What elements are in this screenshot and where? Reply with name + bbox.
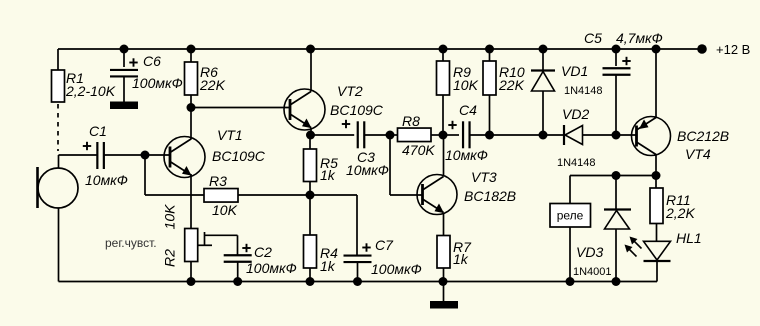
node junction R10 top (485, 45, 494, 54)
node junction R2 bottom (187, 277, 196, 286)
node junction C7 bottom (353, 277, 362, 286)
wire VT3 emitter (443, 213, 445, 236)
svg-text:1k: 1k (453, 251, 469, 267)
ground main (430, 282, 458, 309)
wire VT4 emitter (655, 49, 657, 118)
node junction C4 R10 (485, 131, 494, 140)
capacitor C6 (110, 49, 183, 102)
capacitor C5 (584, 30, 663, 135)
resistor R3 (204, 173, 310, 218)
node junction R11 top (652, 171, 661, 180)
relay K1 (550, 176, 591, 282)
svg-text:C5: C5 (584, 30, 602, 46)
node junction R6 top (187, 45, 196, 54)
resistor R6 (185, 49, 226, 108)
svg-text:22K: 22K (498, 77, 525, 93)
resistor R11 (650, 176, 695, 242)
potentiometer R2 (162, 204, 238, 282)
svg-text:C4: C4 (459, 102, 477, 118)
wire relay line (570, 175, 656, 177)
wire base to R3 (145, 155, 204, 195)
node junction VD1 top (539, 45, 548, 54)
ground C6 (110, 102, 138, 110)
svg-text:10мкФ: 10мкФ (346, 162, 389, 178)
svg-text:4,7мкФ: 4,7мкФ (616, 30, 663, 46)
capacitor C1 (59, 123, 146, 188)
node junction R3 R5 R4 (306, 191, 315, 200)
resistor R9 (437, 49, 479, 135)
svg-text:рег.чувст.: рег.чувст. (105, 236, 157, 250)
diode VD1 (531, 49, 603, 135)
diode VD3 (573, 176, 631, 282)
svg-text:BC109C: BC109C (212, 148, 266, 164)
wire VT2 emitter (310, 128, 312, 136)
capacitor C4 (443, 102, 490, 163)
wire VT1 collector (190, 108, 192, 140)
node junction R9 top (439, 45, 448, 54)
svg-text:10K: 10K (453, 77, 479, 93)
node junction VD3 bottom (612, 277, 621, 286)
svg-text:10K: 10K (212, 202, 238, 218)
node junction R4 bottom (306, 277, 315, 286)
svg-text:1k: 1k (320, 258, 336, 274)
svg-text:+12 В: +12 В (716, 42, 750, 57)
wire VT4 base (616, 134, 637, 136)
svg-text:10мкФ: 10мкФ (445, 147, 488, 163)
node junction C2 bottom (233, 277, 242, 286)
svg-text:VT1: VT1 (217, 127, 243, 143)
svg-text:BC109C: BC109C (330, 102, 384, 118)
svg-text:C7: C7 (375, 237, 394, 253)
svg-text:VT3: VT3 (471, 169, 497, 185)
wire VT1 emitter (190, 174, 192, 229)
node junction VT2 emitter (306, 131, 315, 140)
svg-text:VD2: VD2 (562, 106, 589, 122)
node junction VT2 collector top (306, 45, 315, 54)
LED arrows (625, 237, 642, 257)
wire C4 to VD1 bottom (490, 134, 544, 136)
svg-text:BC182B: BC182B (464, 188, 516, 204)
svg-text:VD3: VD3 (576, 244, 603, 260)
svg-text:1N4001: 1N4001 (573, 266, 612, 278)
capacitor C2 (224, 244, 297, 282)
node junction VD1 bottom (539, 131, 548, 140)
diode VD2 (543, 106, 616, 169)
svg-text:1N4148: 1N4148 (557, 157, 596, 169)
wire R1 dashed link (57, 104, 59, 151)
microphone BM1 (38, 155, 79, 208)
wire VT1 collector to VT2 base (191, 107, 289, 109)
node junction VT1 collector (187, 103, 196, 112)
resistor R10 (483, 49, 525, 135)
node junction ground (439, 277, 448, 286)
transistor VT3 (417, 169, 516, 215)
svg-text:100мкФ: 100мкФ (371, 261, 422, 277)
capacitor C7 (310, 195, 422, 282)
node junction VD3 top (612, 171, 621, 180)
svg-text:BC212B: BC212B (677, 128, 729, 144)
svg-text:VT2: VT2 (337, 83, 363, 99)
wire middle signal bus VT2 emitter to C3 (311, 134, 355, 136)
resistor R1 (52, 49, 116, 102)
node junction VT4 base C5 (612, 131, 621, 140)
svg-text:HL1: HL1 (676, 230, 702, 246)
svg-text:470K: 470K (402, 142, 435, 158)
node junction R9 C4 VT3 (439, 131, 448, 140)
wire +12V top rail (58, 48, 702, 50)
node junction relay bottom (566, 277, 575, 286)
svg-text:1N4148: 1N4148 (564, 85, 603, 97)
wire bottom ground bus (59, 208, 658, 282)
wire VT2 collector (310, 49, 312, 92)
svg-text:1k: 1k (320, 167, 336, 183)
svg-text:C2: C2 (254, 244, 272, 260)
resistor R7 (437, 236, 472, 282)
wire VT3 collector (443, 135, 445, 177)
svg-text:R2: R2 (162, 249, 178, 267)
terminal +12V (697, 42, 750, 57)
svg-text:R3: R3 (209, 173, 227, 189)
svg-text:100мкФ: 100мкФ (246, 260, 297, 276)
svg-text:C1: C1 (89, 123, 107, 139)
svg-text:R8: R8 (402, 113, 420, 129)
svg-text:10мкФ: 10мкФ (85, 172, 128, 188)
svg-text:реле: реле (557, 209, 584, 223)
LED HL1 (644, 230, 702, 282)
resistor R8 (390, 113, 443, 158)
transistor VT4 (632, 117, 730, 163)
svg-text:10K: 10K (162, 204, 178, 230)
node junction C3 R8 VT3 base (386, 131, 395, 140)
node junction VT1 base (141, 151, 150, 160)
svg-text:100мкФ: 100мкФ (132, 75, 183, 91)
svg-text:2,2-10K: 2,2-10K (65, 83, 116, 99)
svg-text:VT4: VT4 (685, 146, 711, 162)
capacitor C3 (342, 120, 390, 178)
transistor VT1 (164, 127, 266, 178)
transistor VT2 (284, 83, 384, 130)
resistor R4 (304, 195, 339, 282)
svg-text:VD1: VD1 (561, 63, 588, 79)
label reg.chuvst (105, 236, 157, 250)
wire VT4 collector (655, 155, 657, 176)
wire VT1 base (145, 154, 170, 156)
svg-text:2,2K: 2,2K (665, 205, 695, 221)
node junction VT4 emitter top (652, 45, 661, 54)
node junction C5 top (612, 45, 621, 54)
resistor R5 (304, 135, 339, 195)
node junction C6 top (120, 45, 129, 54)
svg-text:22K: 22K (199, 77, 226, 93)
wire VT3 base (390, 135, 422, 195)
svg-text:C6: C6 (143, 53, 161, 69)
